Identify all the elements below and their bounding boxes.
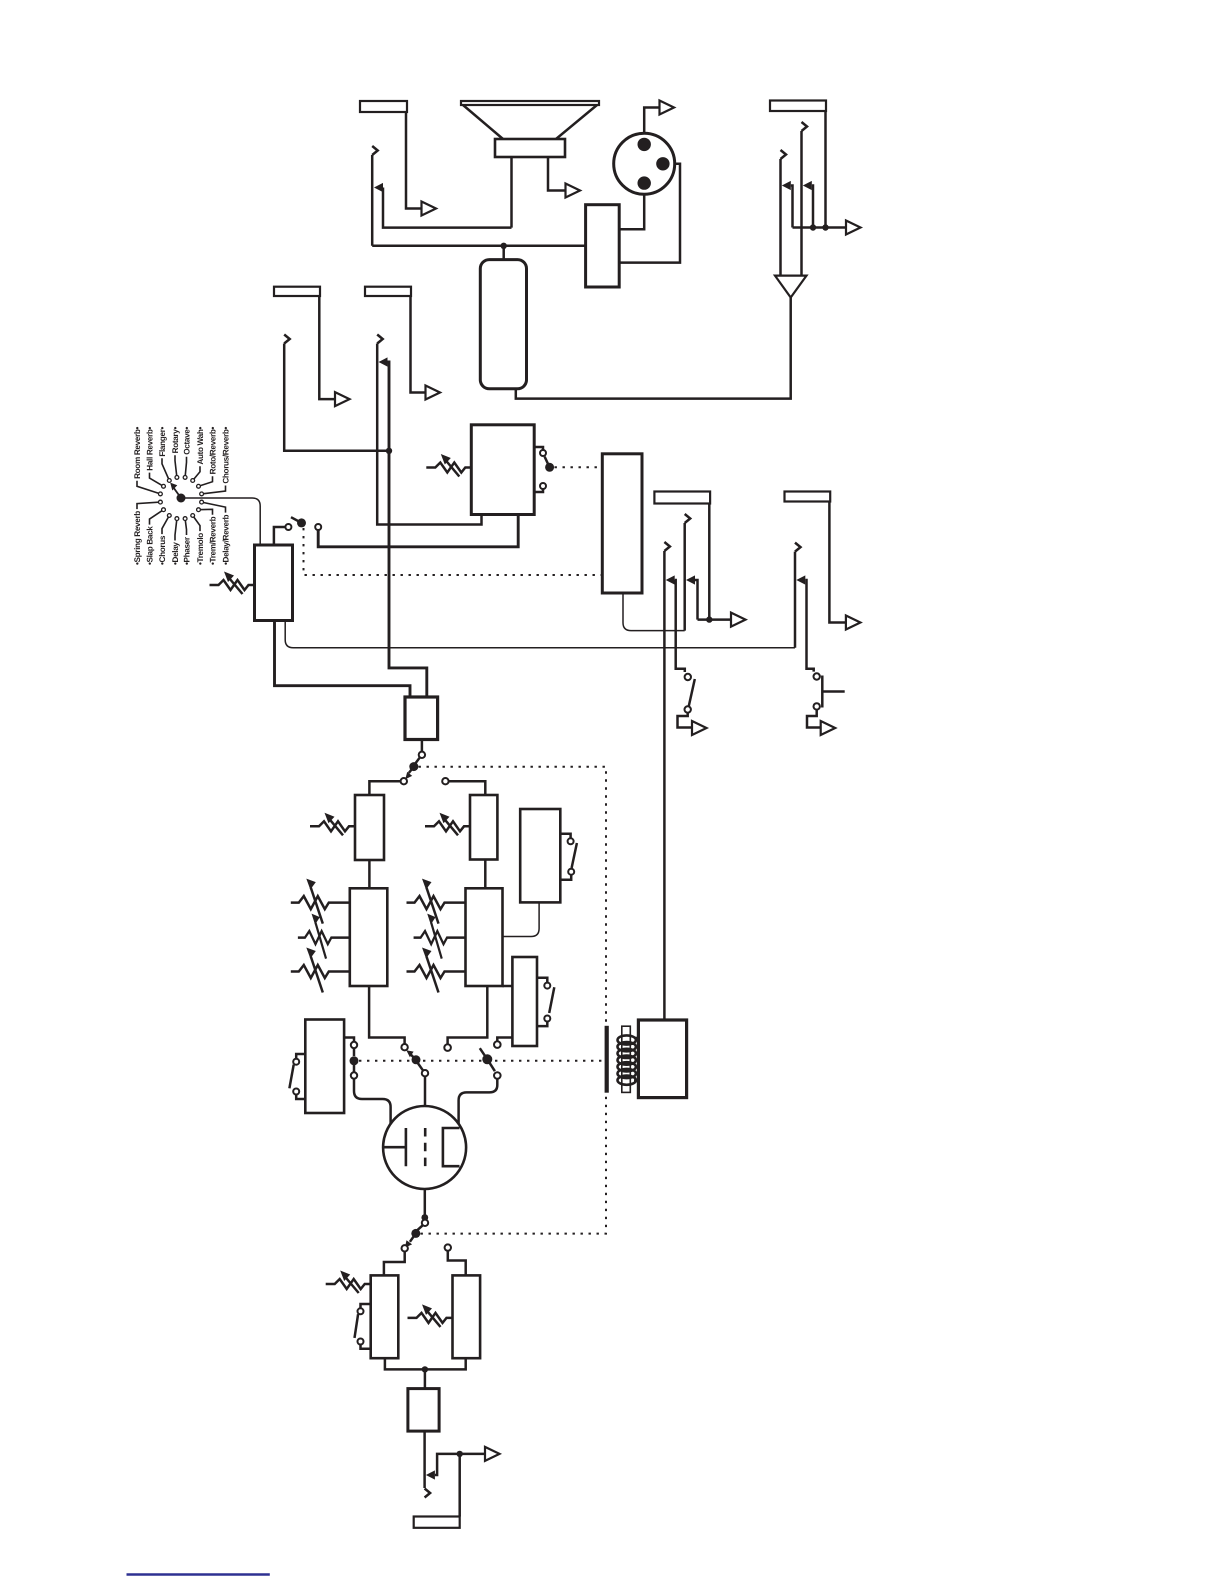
label box (input jack) (414, 1517, 460, 1528)
block R6 (reverb/gain pot) (305, 1020, 344, 1114)
gain pot VR7 (326, 1271, 371, 1294)
speaker magnet (495, 139, 565, 157)
input buffer block U6 (408, 1389, 439, 1432)
junction node (421, 1214, 428, 1221)
footer link line (127, 1573, 270, 1576)
level pot VR1 (426, 454, 471, 477)
switch SW1 pole (545, 463, 554, 472)
svg-text:•Slap Back: •Slap Back (146, 526, 155, 565)
label box (footswitch) (785, 492, 831, 502)
output jack arrow (422, 202, 437, 216)
arrowhead into guitar jack (426, 1470, 435, 1479)
svg-text:•Phaser: •Phaser (183, 536, 192, 565)
wire R3 to channel select SW10 (369, 986, 405, 1044)
switch SW12 on R7 (537, 978, 547, 983)
main input signal line (388, 362, 427, 697)
svg-text:•Delay: •Delay (171, 542, 180, 565)
wire label box to arrow (829, 502, 846, 623)
tube bottom pin (424, 1189, 427, 1220)
switch SW3 (685, 674, 691, 680)
switch SW7 on R5 (560, 834, 570, 839)
arrowhead into input jack (379, 357, 388, 366)
junction node (706, 616, 712, 622)
speaker out arrow (566, 184, 581, 198)
label box (preamp out) (274, 287, 320, 296)
svg-text:•Spring Reverb: •Spring Reverb (133, 511, 142, 565)
DSP U4 output wire (275, 621, 411, 698)
svg-text:•Delay/Reverb: •Delay/Reverb (222, 514, 231, 565)
speaker LS1 frame (461, 101, 599, 105)
DSP U4 aux wire to footswitch jack (285, 621, 795, 648)
tip/ring out arrow (846, 221, 861, 235)
reverb tank capsule (480, 260, 526, 389)
wire SW5 left to volume pot R1 (369, 781, 400, 795)
volume pot VR3 (310, 813, 355, 836)
treble/mid/bass pots VR6 (407, 879, 466, 924)
bus wire to arrow (698, 618, 732, 621)
switch SW1 contact top (534, 447, 543, 450)
wire label box to arrow (319, 296, 335, 399)
loop jack plug B (685, 514, 691, 523)
tube cathode (443, 1128, 460, 1166)
dotted control link SW1 to DSP (555, 466, 603, 468)
tone stack box R3 (350, 888, 388, 986)
volume pot VR4 (425, 813, 470, 836)
dotted control link SW2 to U3 (304, 528, 603, 575)
wires R8/R9 to U6 (385, 1358, 466, 1369)
power amp block U1 (586, 205, 620, 287)
arrowhead into jack B (782, 181, 791, 190)
switch stack SW9 (344, 1038, 354, 1042)
U5 output pin (421, 740, 424, 752)
capsule top pin (502, 246, 505, 260)
svg-text:Roto/Reverb•: Roto/Reverb• (209, 427, 218, 475)
boost switch SW13 throw right (445, 1244, 451, 1250)
jack plug B (781, 150, 787, 159)
footswitch jack plug (795, 543, 801, 552)
volume pot box R1 (355, 795, 384, 860)
transformer T1 winding (618, 1035, 636, 1084)
arrowhead into loop jack A (666, 575, 675, 584)
preamp out arrow (335, 392, 350, 406)
XLR pin 3 (638, 176, 651, 189)
wire SW13 right to R9 (448, 1251, 466, 1276)
svg-text:Auto Wah•: Auto Wah• (196, 427, 205, 465)
speaker terminal wire left (510, 157, 513, 228)
channel switch SW5 throw right (442, 778, 448, 784)
stub R4 to R7 (503, 985, 513, 988)
gain pot VR8 (408, 1304, 453, 1327)
switch SW1 contact bottom (540, 483, 546, 489)
wire label box to arrow (411, 296, 426, 393)
svg-text:Flanger•: Flanger• (158, 427, 167, 457)
wire U6 to input jack (423, 1431, 426, 1488)
transformer T1 bobbin (622, 1026, 631, 1092)
channel switch SW5 throw left (401, 778, 407, 784)
transformer T1 core bar (605, 1026, 609, 1093)
power tube V1 envelope (383, 1106, 466, 1189)
bus wire to arrow (793, 226, 847, 229)
effect level pot VR2 (210, 572, 255, 595)
SW4 out arrow (821, 721, 836, 735)
wire SW5 right to volume pot R2 (449, 781, 486, 795)
speaker cone (463, 105, 597, 139)
svg-text:Rotary•: Rotary• (171, 427, 180, 454)
wire power amp output to speaker jack (372, 245, 585, 248)
rotary effect selector switch (133, 427, 231, 565)
wire U3 to effects loop jack (623, 593, 685, 631)
svg-text:Hall Reverb•: Hall Reverb• (146, 427, 155, 471)
wire from label box to output arrow (406, 112, 422, 209)
wire to label box (458, 1454, 461, 1517)
boost switch SW13 pole (411, 1229, 420, 1238)
jack plug A (802, 122, 808, 131)
junction node (501, 243, 507, 249)
XLR right lead (619, 164, 680, 263)
XLR pin 2 (656, 157, 669, 170)
block U2 (471, 425, 534, 515)
tube plate (384, 1128, 406, 1166)
guitar input jack plug (425, 1489, 431, 1498)
input echo arrow (426, 386, 441, 400)
dotted control link SW13 (421, 1096, 607, 1234)
momentary switch SW4 (814, 673, 820, 679)
wire SW11 to tube (459, 1079, 498, 1124)
input signal arrow (485, 1447, 500, 1461)
wire SW13 left to R8 (384, 1252, 405, 1276)
label box (top-right) (770, 101, 826, 112)
label box (top-left output) (360, 101, 407, 112)
speaker jack plug (372, 146, 378, 155)
arrowhead into footswitch jack (796, 575, 805, 584)
switch SW8 on R6 left (296, 1054, 305, 1059)
dotted control line (359, 1060, 602, 1062)
block R7 (presence pot) (512, 957, 537, 1046)
footswitch ring arrow (846, 616, 861, 630)
channel switch SW5 common (419, 752, 425, 758)
junction node (457, 1451, 463, 1457)
wire R2 to tone stack R4 (484, 860, 487, 889)
wire R4 to channel select SW11 (448, 986, 488, 1044)
XLR pin 1 (638, 138, 651, 151)
wire from label box down (824, 111, 827, 228)
bypass switch SW2 pole (297, 518, 306, 527)
wire triangle to reverb capsule (516, 298, 791, 399)
XLR top lead (644, 108, 659, 134)
dotted control link SW5 (419, 767, 607, 1026)
svg-text:Octave•: Octave• (183, 427, 192, 455)
svg-text:Room Reverb•: Room Reverb• (133, 427, 142, 479)
wire SW10 to tube (424, 1076, 427, 1106)
transformer T1 leads (634, 1038, 638, 1081)
junction node (422, 1366, 428, 1372)
channel select SW10 (401, 1044, 407, 1050)
boost switch SW13 throw left (402, 1245, 408, 1251)
loop jack plug A (664, 542, 670, 551)
XLR out arrow (660, 101, 675, 115)
tube grid (dashed) (424, 1128, 427, 1166)
tone stack box R4 (466, 888, 503, 986)
master pot box R5 (520, 809, 560, 902)
boost switch SW13 common (422, 1220, 428, 1226)
wire R5 to R4 (503, 902, 540, 936)
wire R1 to tone stack R3 (368, 860, 371, 888)
DSP block U3 (602, 454, 642, 593)
svg-text:•Trem/Reverb: •Trem/Reverb (209, 516, 218, 565)
XLR bottom lead (619, 194, 644, 229)
switch SW14 on R8 (361, 1304, 371, 1308)
arrowhead into speaker jack (374, 183, 383, 192)
arrowhead into jack A (803, 181, 812, 190)
volume pot box R2 (470, 795, 497, 860)
gain pot box R8 (371, 1275, 399, 1358)
SW3 out arrow (692, 721, 707, 735)
junction node (810, 224, 816, 230)
bypass switch SW2 right contact (315, 524, 321, 530)
bypass switch SW2 left contact (274, 527, 286, 545)
arrowhead into loop jack B (686, 575, 695, 584)
svg-text:•Chorus: •Chorus (158, 535, 167, 565)
speaker terminal wire right (548, 157, 566, 191)
summing triangle (775, 276, 807, 298)
wire SW9 to tube grid (354, 1079, 391, 1124)
wire label box down (708, 504, 711, 620)
svg-text:•Tremolo: •Tremolo (196, 533, 205, 565)
DSP block U4 (255, 545, 293, 621)
label box (effects loop) (654, 492, 710, 504)
junction node (386, 448, 392, 454)
channel switch SW5 pole (409, 762, 418, 771)
input jack plug (377, 335, 383, 344)
jack plug (power amp in) (284, 335, 290, 344)
label box (input) (365, 287, 411, 296)
wire rotary wiper to DSP U4 (185, 498, 260, 545)
junction node (822, 224, 828, 230)
gain pot box R9 (453, 1275, 481, 1358)
svg-text:Chorus/Reverb•: Chorus/Reverb• (222, 427, 231, 484)
channel select SW11 (444, 1044, 451, 1051)
output block U7 (638, 1020, 686, 1098)
XLR connector (614, 133, 675, 194)
treble/mid/bass pots VR5 (291, 879, 350, 924)
loop send arrow (731, 613, 746, 627)
preamp block U5 (405, 697, 438, 740)
